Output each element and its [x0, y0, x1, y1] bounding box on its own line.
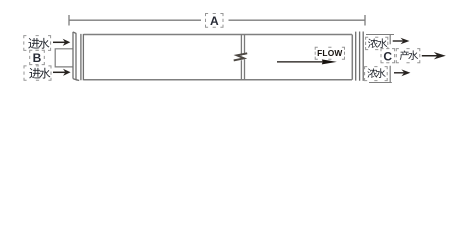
extension line top right	[366, 34, 394, 36]
label B	[30, 50, 45, 65]
concentrate arrow top-right	[393, 38, 410, 45]
right end cap	[356, 32, 364, 81]
extension line bottom right	[369, 82, 392, 84]
dimension bracket B	[55, 49, 72, 67]
label 进水 bottom-left	[24, 66, 51, 80]
FLOW arrow	[277, 59, 337, 64]
label A	[206, 14, 224, 29]
svg-text:B: B	[33, 51, 42, 65]
dimension line C	[389, 35, 391, 83]
label FLOW	[315, 47, 344, 59]
dimension line A	[69, 15, 365, 26]
feed arrow top-left	[53, 39, 70, 46]
break symbol	[234, 35, 248, 80]
svg-text:C: C	[383, 49, 392, 63]
permeate arrow	[422, 52, 446, 59]
concentrate arrow bottom-right	[394, 69, 410, 76]
label C	[381, 49, 395, 64]
label 浓水 bottom-right	[365, 67, 388, 81]
left end cap	[73, 32, 83, 81]
svg-text:A: A	[210, 14, 219, 28]
feed arrow bottom-left	[53, 69, 71, 76]
svg-text:FLOW: FLOW	[317, 48, 342, 58]
label 浓水 top-right	[366, 37, 388, 49]
vessel body shell	[84, 35, 352, 80]
label 进水 top-left	[24, 36, 51, 51]
label 产水	[396, 49, 420, 63]
